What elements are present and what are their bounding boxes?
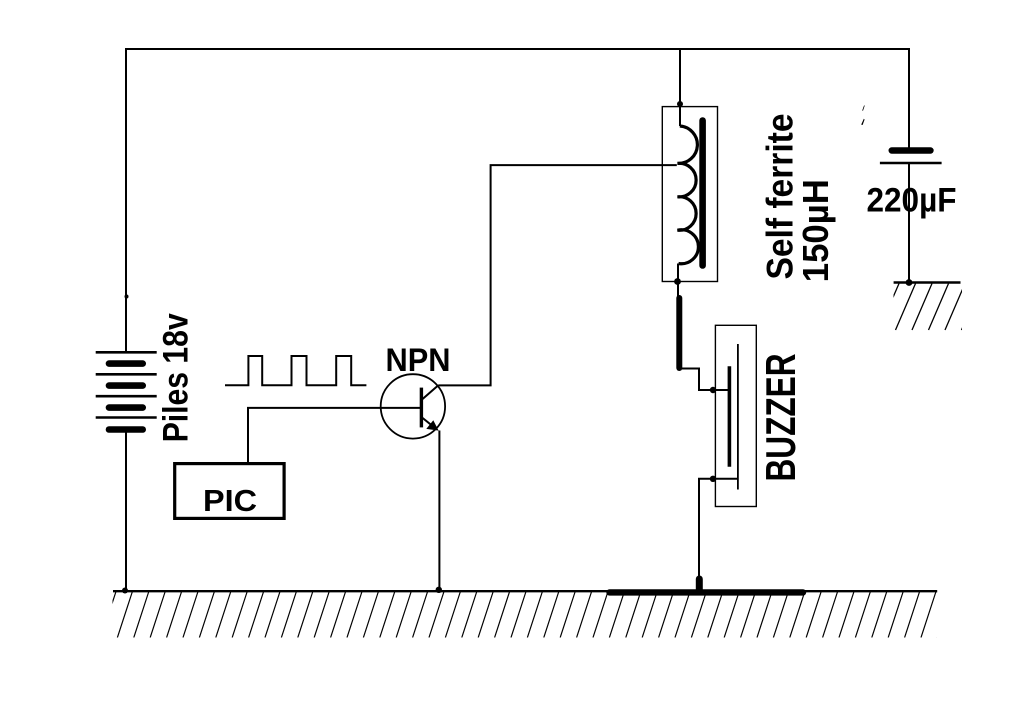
capacitor C1 plate minus <box>880 162 942 165</box>
capacitor C1 plate plus <box>892 147 931 153</box>
node buzzer plus <box>710 387 716 393</box>
wire capacitor to ground <box>908 163 910 283</box>
stray mark lower <box>861 119 864 125</box>
node emitter at ground <box>436 587 442 593</box>
wire buzzer minus to ground <box>699 479 738 586</box>
buzzer BZ1 box <box>715 325 756 506</box>
inductor L1 coil <box>678 126 699 264</box>
ground GND1 top right <box>879 283 982 331</box>
wire inductor bottom <box>677 264 679 298</box>
stray mark upper <box>862 105 864 111</box>
node buzzer minus <box>710 476 716 482</box>
wire step to buzzer plus terminal <box>679 369 729 391</box>
node capacitor at ground <box>906 279 913 286</box>
wire collector to inductor tap <box>438 165 677 385</box>
inductor L1 core bar <box>699 121 706 266</box>
node inductor top <box>677 101 683 107</box>
nub buzzer ground <box>696 579 703 590</box>
buzzer plate thick <box>728 366 732 467</box>
svg-text:220µF: 220µF <box>867 182 957 220</box>
battery BT1 Piles 18v <box>96 352 157 429</box>
ground GND2 bottom <box>101 591 952 637</box>
buzzer plate thin <box>737 344 739 490</box>
wire PIC output to transistor base <box>248 408 420 462</box>
inductor L1 box <box>662 107 717 282</box>
svg-text:NPN: NPN <box>386 342 451 378</box>
wire emitter to ground <box>438 431 440 592</box>
transistor Q1 NPN <box>381 374 445 438</box>
clock waveform <box>225 356 366 385</box>
svg-text:PIC: PIC <box>203 483 257 518</box>
box PIC U1 <box>175 464 284 519</box>
node on left rail <box>125 295 129 299</box>
svg-text:150µH: 150µH <box>795 179 836 282</box>
wire top supply rail <box>126 49 909 352</box>
wire battery negative to ground <box>125 432 127 591</box>
node battery rail at ground <box>122 588 128 594</box>
svg-text:Piles 18v: Piles 18v <box>157 313 196 442</box>
wire supply rail to inductor <box>679 49 681 126</box>
svg-text:BUZZER: BUZZER <box>757 354 804 482</box>
wire thick inductor to buzzer <box>676 298 682 368</box>
node inductor bottom <box>674 278 681 285</box>
